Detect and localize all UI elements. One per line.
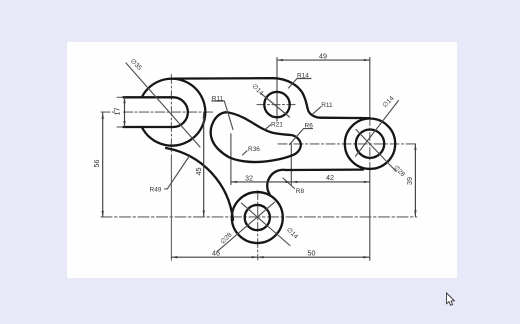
extension line 49 right — [369, 58, 371, 118]
extension line 32 left (kidney lobe center) — [230, 134, 232, 185]
svg-text:39: 39 — [405, 177, 414, 185]
upper middle line — [320, 117, 369, 120]
dim 46 arrows — [171, 256, 177, 258]
small hole circle (phi14) — [264, 92, 289, 117]
svg-text:R11: R11 — [321, 102, 333, 109]
dim 56 line — [102, 113, 104, 217]
right hole C3 inner — [356, 130, 384, 158]
svg-text:49: 49 — [319, 52, 327, 61]
svg-text:R21: R21 — [271, 122, 283, 129]
svg-text:R49: R49 — [150, 186, 162, 193]
dim 39 line — [414, 144, 416, 216]
fillet R11 — [308, 108, 321, 118]
svg-text:R11: R11 — [212, 95, 224, 102]
kidney slot outline — [211, 112, 301, 162]
svg-text:42: 42 — [326, 173, 334, 182]
arrows — [102, 59, 417, 259]
leader phi14 small circle — [261, 94, 290, 118]
svg-text:56: 56 — [92, 160, 101, 168]
leader R36 — [243, 151, 248, 155]
leader phi14 bottom circle — [241, 203, 290, 245]
centerline vertical right circle C3 — [369, 118, 371, 171]
arc R49 — [166, 148, 233, 220]
leader phi28 right circle — [356, 130, 396, 172]
svg-text:32: 32 — [245, 173, 253, 182]
extension line 49 left / small circle vertical — [276, 58, 278, 121]
leader phi14 right circle — [356, 101, 399, 157]
centerline vertical bottom circle C2 — [257, 191, 259, 260]
boss arc R14 — [274, 78, 308, 108]
white drawing canvas — [67, 42, 457, 278]
dim 45 arrows — [203, 113, 205, 119]
dim 17 extension stub bottom — [117, 126, 123, 128]
leader R14 — [289, 79, 312, 89]
right lobe outer circle C3 — [345, 119, 395, 169]
dim 46-50 line — [171, 256, 369, 258]
wrench slot cap arc — [173, 97, 188, 127]
leader R6 — [290, 129, 313, 145]
leader phi35 — [126, 63, 200, 147]
dim 17 extension stub top — [117, 96, 123, 98]
wrench slot top line — [123, 96, 173, 98]
extension line 46 left (wrench vertical continued) — [170, 160, 172, 260]
leader phi28 bottom circle — [217, 202, 275, 252]
dim 56 arrows — [102, 113, 104, 119]
centerline horizontal right circle C3 — [278, 143, 417, 145]
leader R8 — [283, 178, 295, 189]
wrench slot bottom line — [123, 126, 173, 128]
svg-text:46: 46 — [212, 249, 220, 258]
dim 42 arrows — [291, 181, 297, 183]
centerline horizontal wrench C1 — [101, 111, 115, 113]
centerline horizontal wrench C1 (right of 17 text) — [124, 111, 214, 113]
centerline horizontal bottom circle C2 (long, 56 to 39) — [101, 216, 417, 218]
svg-text:50: 50 — [308, 249, 316, 258]
leader R11 right fillet — [313, 107, 321, 114]
extension line 32/42 shared (kidney tip center) — [290, 143, 292, 185]
svg-text:R8: R8 — [296, 188, 305, 195]
bottom boss outer circle C2 — [232, 192, 283, 243]
dim 32 arrows — [231, 181, 237, 183]
dim 32-42 line — [231, 181, 370, 183]
dim 17 line — [124, 97, 126, 127]
dim 45 line — [203, 113, 205, 217]
svg-text:17: 17 — [113, 108, 122, 116]
dim 49 line — [277, 59, 370, 61]
svg-text:R6: R6 — [305, 123, 314, 130]
svg-text:R36: R36 — [248, 146, 260, 153]
fillet R8 — [267, 170, 286, 194]
leader R21 — [265, 125, 270, 129]
leader R11 kidney — [212, 101, 233, 130]
dim 39 arrows — [414, 144, 416, 150]
bottom hole C2 inner — [245, 205, 270, 230]
dim 50 arrows — [258, 256, 264, 258]
mouse cursor — [447, 293, 455, 305]
centerline vertical wrench C1 — [170, 75, 172, 161]
svg-text:R14: R14 — [297, 73, 309, 80]
wrench outer circle arc C1 — [142, 79, 206, 146]
dim 49 arrows — [277, 59, 283, 61]
svg-text:45: 45 — [194, 168, 203, 176]
top tangent line — [171, 77, 274, 80]
extension line 42/50 right — [369, 170, 371, 260]
centerline horizontal small circle R14 — [257, 104, 298, 106]
leader R49 — [165, 157, 190, 189]
lower middle line — [286, 168, 363, 171]
dim 17 arrows — [123, 97, 125, 103]
